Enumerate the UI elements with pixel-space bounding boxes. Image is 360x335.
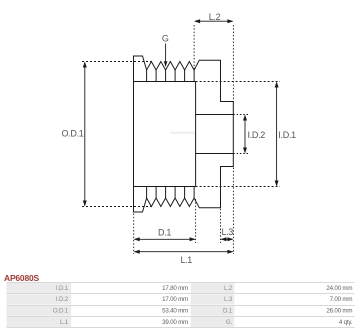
svg-text:4 qty.: 4 qty.: [339, 319, 353, 326]
labels: [53, 285, 233, 326]
disc/flange boundary vertical: [195, 82, 197, 187]
pulley outline: [134, 56, 234, 212]
svg-text:O.D.1: O.D.1: [53, 308, 69, 315]
svg-text:17.80 mm: 17.80 mm: [162, 285, 188, 292]
svg-text:I.D.1: I.D.1: [56, 285, 69, 292]
svg-text:L.1: L.1: [60, 319, 69, 326]
svg-text:L.3: L.3: [222, 227, 234, 237]
svg-text:I.D.1: I.D.1: [278, 130, 296, 140]
svg-text:24.00 mm: 24.00 mm: [326, 285, 352, 292]
svg-text:G: G: [162, 34, 169, 44]
values: [162, 285, 353, 326]
I.D.2 dimension: [233, 115, 248, 154]
table: [7, 283, 355, 328]
L.1 dimension: [135, 251, 233, 253]
faint watermark remnant: [170, 132, 195, 135]
svg-text:AP6080S: AP6080S: [4, 273, 40, 283]
svg-text:D.1: D.1: [158, 227, 171, 237]
svg-text:O.D.1: O.D.1: [61, 129, 83, 139]
svg-text:L.1: L.1: [181, 255, 193, 265]
bore lines (hub): [196, 114, 234, 116]
svg-text:I.D.2: I.D.2: [56, 296, 69, 303]
I.D.1 dimension: [196, 82, 280, 187]
body bottom line: [134, 186, 196, 188]
groove bottom verticals top: [147, 70, 195, 82]
row backgrounds: label cells: [7, 283, 235, 327]
svg-text:39.00 mm: 39.00 mm: [162, 319, 188, 326]
svg-text:L.3: L.3: [224, 296, 233, 303]
svg-text:G.: G.: [226, 319, 233, 326]
svg-text:I.D.2: I.D.2: [248, 130, 266, 140]
row separator lines: [7, 283, 355, 328]
svg-text:26.00 mm: 26.00 mm: [326, 308, 352, 315]
svg-text:53.40 mm: 53.40 mm: [162, 308, 188, 315]
svg-text:D.1: D.1: [223, 308, 233, 315]
O.D.1 dimension: [82, 62, 151, 207]
svg-text:17.00 mm: 17.00 mm: [162, 296, 188, 303]
svg-text:7.00 mm: 7.00 mm: [330, 296, 353, 303]
svg-text:L.2: L.2: [224, 285, 233, 292]
body top line: [134, 81, 196, 83]
groove bottom verticals bottom: [147, 187, 195, 199]
svg-text:L.2: L.2: [209, 12, 221, 22]
